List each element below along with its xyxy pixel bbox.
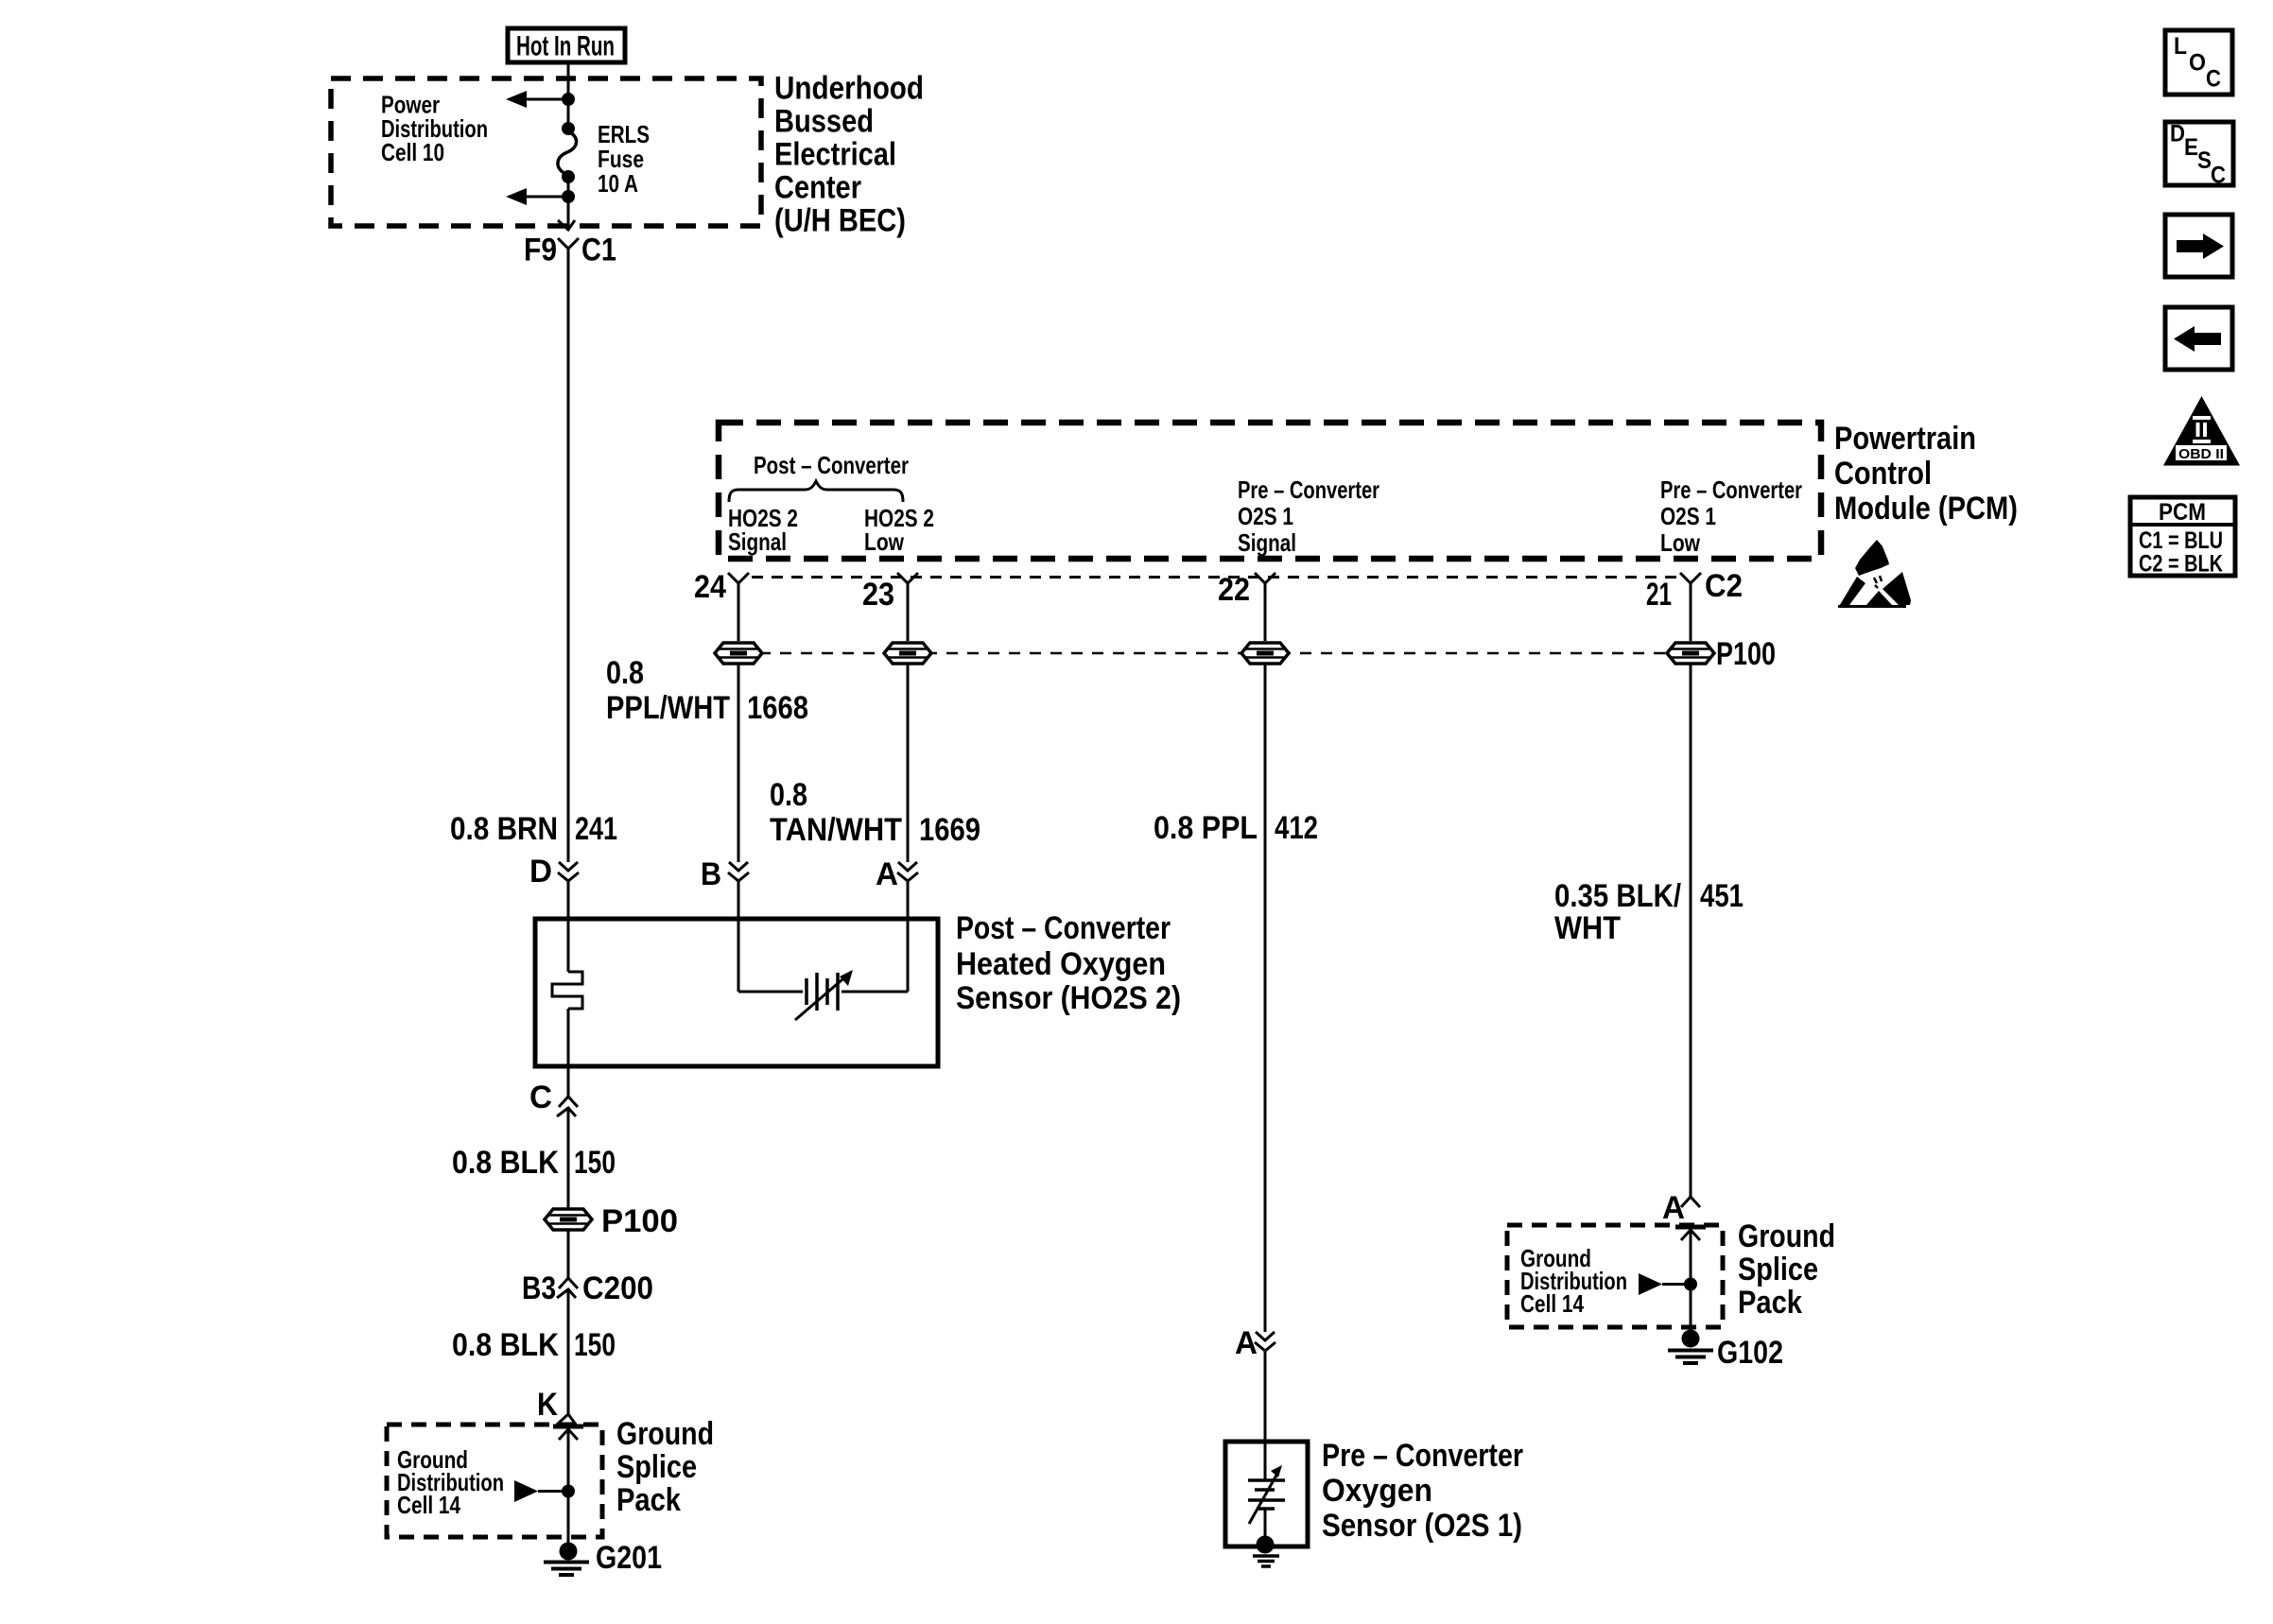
svg-text:1669: 1669 bbox=[919, 812, 980, 848]
terminal C arrows bbox=[557, 1097, 578, 1116]
power feed box Hot In Run bbox=[508, 28, 625, 62]
label Post-Converter Heated Oxygen Sensor (HO2S 2) bbox=[956, 910, 1181, 1016]
inline connector P100 (pin24 wire) bbox=[715, 643, 762, 664]
svg-text:150: 150 bbox=[574, 1145, 616, 1181]
label D bbox=[529, 854, 552, 890]
svg-text:Low: Low bbox=[1660, 528, 1701, 557]
svg-text:PPL/WHT: PPL/WHT bbox=[606, 690, 730, 726]
wire TAN/WHT 1669 bbox=[907, 664, 910, 862]
terminal D arrows bbox=[558, 862, 579, 881]
svg-text:0.8: 0.8 bbox=[606, 655, 644, 691]
svg-text:B: B bbox=[701, 856, 721, 892]
label A (G102) bbox=[1662, 1190, 1685, 1226]
svg-text:D: D bbox=[2170, 121, 2185, 147]
wire BLK/WHT 451 bbox=[1690, 664, 1692, 1197]
label Powertrain Control Module (PCM) bbox=[1834, 421, 2018, 527]
svg-text:Bussed: Bussed bbox=[774, 104, 874, 140]
icon PCM connector legend bbox=[2130, 497, 2235, 578]
svg-text:22: 22 bbox=[1218, 572, 1250, 608]
icon LOC box bbox=[2165, 30, 2232, 95]
svg-text:0.8 BLK: 0.8 BLK bbox=[452, 1145, 559, 1181]
svg-text:G201: G201 bbox=[596, 1540, 662, 1576]
svg-text:Module (PCM): Module (PCM) bbox=[1834, 491, 2018, 527]
sensor box O2S 1 bbox=[1225, 1442, 1308, 1546]
pin 22 Y bbox=[1255, 573, 1275, 641]
label pin 24 bbox=[694, 569, 726, 605]
label P100 (left) bbox=[601, 1203, 678, 1239]
fuse ERLS 10A bbox=[558, 122, 577, 183]
inline connector P100 (left) bbox=[545, 1209, 592, 1230]
svg-text:C1: C1 bbox=[581, 233, 616, 268]
svg-text:23: 23 bbox=[862, 577, 894, 613]
svg-text:Hot In Run: Hot In Run bbox=[516, 31, 615, 62]
svg-text:Cell 10: Cell 10 bbox=[381, 138, 444, 166]
connector C200 arrows bbox=[557, 1278, 578, 1298]
ground distribution dashed box (left) bbox=[387, 1425, 602, 1537]
wire PPL 412 bbox=[1264, 664, 1267, 1332]
svg-text:Sensor (O2S 1): Sensor (O2S 1) bbox=[1322, 1508, 1522, 1544]
svg-text:A: A bbox=[876, 856, 898, 892]
wire bbox=[567, 1066, 570, 1097]
icon back arrow box bbox=[2165, 307, 2232, 370]
label HO2S 2 Signal (pin 24) bbox=[728, 504, 798, 556]
svg-text:Low: Low bbox=[864, 527, 905, 556]
P100 dashed line bbox=[738, 652, 1713, 655]
label 0.8 TAN/WHT 1669 bbox=[770, 777, 980, 848]
svg-text:Pre – Converter: Pre – Converter bbox=[1322, 1438, 1523, 1474]
svg-text:Underhood: Underhood bbox=[774, 71, 924, 107]
wire bbox=[567, 177, 570, 197]
wire BLK 150 upper bbox=[567, 1116, 570, 1210]
ground G201 symbol bbox=[544, 1543, 589, 1576]
label G102 bbox=[1717, 1335, 1783, 1371]
label Ground Distribution Cell 14 (left) bbox=[397, 1445, 504, 1519]
node splice junction (left) bbox=[562, 1485, 575, 1498]
svg-text:Post – Converter: Post – Converter bbox=[956, 910, 1171, 946]
splice entry arrow (left) bbox=[553, 1426, 583, 1491]
svg-text:G102: G102 bbox=[1717, 1335, 1783, 1371]
svg-text:Pack: Pack bbox=[1738, 1285, 1802, 1321]
svg-text:C2 = BLK: C2 = BLK bbox=[2139, 551, 2223, 578]
terminal A arrows (O2S1) bbox=[1255, 1332, 1275, 1351]
svg-text:C200: C200 bbox=[582, 1270, 653, 1306]
label pin 21 bbox=[1646, 577, 1672, 613]
label pin 22 bbox=[1218, 572, 1250, 608]
label P100 (right) bbox=[1716, 636, 1776, 672]
wire bbox=[567, 1491, 570, 1545]
svg-text:D: D bbox=[529, 854, 552, 890]
svg-text:Ground: Ground bbox=[616, 1416, 714, 1452]
svg-text:TAN/WHT: TAN/WHT bbox=[770, 812, 902, 848]
svg-text:Oxygen: Oxygen bbox=[1322, 1473, 1432, 1509]
svg-text:Post – Converter: Post – Converter bbox=[754, 451, 909, 479]
svg-text:S: S bbox=[2197, 147, 2212, 174]
svg-text:PCM: PCM bbox=[2159, 499, 2206, 526]
svg-text:P100: P100 bbox=[1716, 636, 1776, 672]
cell14 arrow (right) bbox=[1639, 1273, 1691, 1295]
svg-text:K: K bbox=[537, 1387, 558, 1423]
heater element HO2S 2 bbox=[552, 919, 582, 1066]
splice entry arrow (right) bbox=[1675, 1227, 1706, 1284]
label B3 bbox=[522, 1270, 556, 1306]
sensor box HO2S 2 bbox=[535, 919, 938, 1066]
sensing element O2S 1 bbox=[1248, 1442, 1285, 1545]
svg-text:A: A bbox=[1235, 1325, 1258, 1361]
node bus tap 2 bbox=[562, 190, 575, 203]
label 0.8 BLK 150 (lower) bbox=[452, 1327, 616, 1363]
svg-text:WHT: WHT bbox=[1554, 910, 1621, 946]
svg-text:241: 241 bbox=[575, 811, 617, 847]
svg-text:C2: C2 bbox=[1705, 568, 1743, 604]
arrow power distribution 2 bbox=[506, 188, 568, 205]
icon forward arrow box bbox=[2165, 215, 2232, 277]
label 0.8 PPL/WHT 1668 bbox=[606, 655, 808, 726]
svg-text:0.8 BLK: 0.8 BLK bbox=[452, 1327, 559, 1363]
arrow power distribution 1 bbox=[506, 91, 568, 108]
wire BRN 241 bbox=[567, 268, 570, 862]
pin 24 Y bbox=[728, 573, 749, 641]
icon DESC box bbox=[2165, 121, 2233, 189]
label U/H BEC bbox=[774, 71, 924, 239]
label Ground Splice Pack (left) bbox=[616, 1416, 714, 1518]
wire bbox=[907, 881, 910, 919]
label ERLS Fuse 10 A bbox=[598, 120, 650, 198]
svg-text:Sensor (HO2S 2): Sensor (HO2S 2) bbox=[956, 980, 1181, 1016]
svg-text:Pre – Converter: Pre – Converter bbox=[1238, 475, 1379, 504]
label C1 bbox=[581, 233, 616, 268]
label G201 bbox=[596, 1540, 662, 1576]
svg-text:150: 150 bbox=[574, 1327, 616, 1363]
label Pre-Converter O2S 1 Low (pin 21) bbox=[1660, 475, 1802, 557]
label Post-Converter (PCM) bbox=[754, 451, 909, 479]
wire + exit arrowhead bbox=[558, 197, 575, 230]
connector C2 dashed line bbox=[752, 576, 1677, 579]
label 0.8 BLK 150 (upper) bbox=[452, 1145, 616, 1181]
svg-text:Ground: Ground bbox=[1738, 1218, 1835, 1254]
brace post-converter bbox=[729, 481, 903, 502]
terminal K fork bbox=[557, 1414, 576, 1425]
svg-text:F9: F9 bbox=[524, 233, 557, 268]
pin 21 Y bbox=[1680, 573, 1701, 641]
wire bbox=[1264, 1351, 1267, 1442]
svg-text:Signal: Signal bbox=[1238, 528, 1296, 557]
svg-text:Electrical: Electrical bbox=[774, 137, 896, 173]
sensing element HO2S 2 bbox=[738, 919, 908, 1020]
icon OBD II triangle bbox=[2163, 396, 2240, 466]
ground distribution dashed box (right) bbox=[1507, 1225, 1723, 1327]
label Pre-Converter O2S 1 Signal (pin 22) bbox=[1238, 475, 1379, 557]
svg-text:Signal: Signal bbox=[728, 527, 787, 556]
label 0.35 BLK/WHT 451 bbox=[1554, 878, 1744, 946]
svg-text:B3: B3 bbox=[522, 1270, 556, 1306]
svg-text:C: C bbox=[2211, 163, 2226, 189]
svg-text:A: A bbox=[1662, 1190, 1685, 1226]
svg-text:P100: P100 bbox=[601, 1203, 678, 1239]
svg-text:0.35 BLK/: 0.35 BLK/ bbox=[1554, 878, 1681, 914]
svg-text:0.8: 0.8 bbox=[770, 777, 807, 813]
svg-text:Heated Oxygen: Heated Oxygen bbox=[956, 946, 1166, 982]
svg-text:24: 24 bbox=[694, 569, 726, 605]
cell14 arrow (left) bbox=[514, 1480, 568, 1502]
label C200 bbox=[582, 1270, 653, 1306]
svg-text:Center: Center bbox=[774, 170, 861, 206]
svg-text:451: 451 bbox=[1700, 878, 1744, 914]
svg-text:L: L bbox=[2174, 33, 2187, 60]
svg-text:C: C bbox=[529, 1080, 552, 1115]
wire bbox=[567, 1230, 570, 1278]
svg-text:O2S 1: O2S 1 bbox=[1238, 502, 1293, 530]
wire bbox=[567, 99, 570, 129]
inline connector P100 (pin23 wire) bbox=[884, 643, 931, 664]
label 0.8 PPL 412 bbox=[1154, 810, 1318, 846]
wire bbox=[1690, 1284, 1692, 1333]
svg-text:Pre – Converter: Pre – Converter bbox=[1660, 475, 1802, 504]
svg-text:Splice: Splice bbox=[616, 1449, 697, 1485]
svg-text:1668: 1668 bbox=[747, 690, 808, 726]
wire bbox=[567, 881, 570, 919]
ground symbol O2S1 bbox=[1253, 1536, 1279, 1567]
label 0.8 BRN 241 bbox=[450, 811, 617, 847]
wire bbox=[737, 881, 740, 919]
wire PPL/WHT 1668 bbox=[737, 664, 740, 862]
connector F9 C1 Y symbol bbox=[558, 238, 579, 268]
svg-text:O: O bbox=[2189, 50, 2206, 77]
label HO2S 2 Low (pin 23) bbox=[864, 504, 934, 556]
label pin 23 bbox=[862, 577, 894, 613]
label B bbox=[701, 856, 721, 892]
svg-text:OBD II: OBD II bbox=[2178, 446, 2224, 462]
svg-text:(U/H BEC): (U/H BEC) bbox=[774, 203, 906, 239]
terminal A fork (G102) bbox=[1681, 1197, 1700, 1207]
label F9 bbox=[524, 233, 557, 268]
svg-text:O2S 1: O2S 1 bbox=[1660, 502, 1716, 530]
terminal B arrows bbox=[728, 862, 749, 881]
label A (O2S1) bbox=[1235, 1325, 1258, 1361]
svg-text:0.8 BRN: 0.8 BRN bbox=[450, 811, 558, 847]
svg-text:Cell 14: Cell 14 bbox=[397, 1491, 460, 1519]
svg-text:0.8 PPL: 0.8 PPL bbox=[1154, 810, 1258, 846]
wire hot feed bbox=[567, 62, 570, 99]
pin 23 Y bbox=[897, 573, 918, 641]
terminal A arrows bbox=[897, 862, 918, 881]
svg-text:C: C bbox=[2206, 66, 2221, 93]
svg-text:E: E bbox=[2184, 134, 2198, 161]
Underhood Bussed Electrical Center dashed box bbox=[331, 78, 761, 226]
label C bbox=[529, 1080, 552, 1115]
label Ground Distribution Cell 14 (right) bbox=[1520, 1244, 1627, 1318]
svg-text:412: 412 bbox=[1275, 810, 1318, 846]
svg-text:Pack: Pack bbox=[616, 1482, 681, 1518]
PCM dashed box bbox=[719, 423, 1821, 559]
svg-text:Cell 14: Cell 14 bbox=[1520, 1289, 1584, 1318]
label Ground Splice Pack (right) bbox=[1738, 1218, 1835, 1321]
label K bbox=[537, 1387, 558, 1423]
inline connector P100 (pin22 wire) bbox=[1241, 643, 1289, 664]
ESD sensitivity symbol bbox=[1838, 540, 1911, 608]
svg-text:Powertrain: Powertrain bbox=[1834, 421, 1976, 457]
wire BLK 150 lower bbox=[567, 1298, 570, 1414]
svg-text:Splice: Splice bbox=[1738, 1252, 1818, 1287]
label A bbox=[876, 856, 898, 892]
label Pre-Converter Oxygen Sensor (O2S 1) bbox=[1322, 1438, 1523, 1544]
node bus tap 1 bbox=[562, 93, 575, 106]
inline connector P100 (pin21 wire) bbox=[1667, 643, 1714, 664]
label C2 bbox=[1705, 568, 1743, 604]
svg-text:21: 21 bbox=[1646, 577, 1672, 613]
ground G102 symbol bbox=[1668, 1330, 1713, 1364]
svg-text:10 A: 10 A bbox=[598, 169, 638, 198]
svg-text:Control: Control bbox=[1834, 456, 1932, 492]
node splice junction (right) bbox=[1684, 1278, 1697, 1291]
label Power Distribution Cell 10 bbox=[381, 91, 488, 167]
